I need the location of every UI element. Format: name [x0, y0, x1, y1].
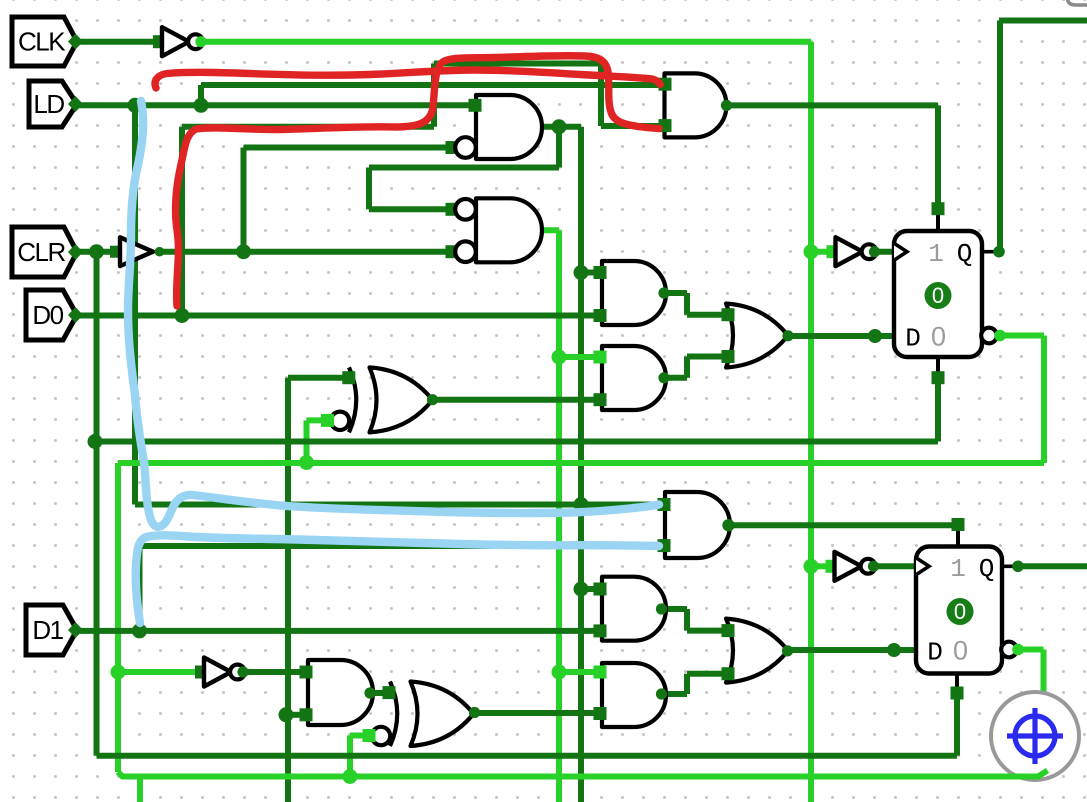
wire vertical bright exit at x140	[137, 777, 143, 802]
wire branch to gate B1 lower input	[286, 712, 302, 718]
flip-flop FF2 state value 0	[947, 598, 974, 625]
wire vertical bright Q1-bar drop at x1044	[1041, 336, 1047, 464]
wire vertical bright feedback rail at x118	[115, 463, 121, 772]
svg-text:0: 0	[931, 322, 946, 352]
FF2 Q output leg and node	[1002, 564, 1015, 568]
inverter I5 (FF2 clock)	[826, 560, 839, 573]
svg-text:Q: Q	[979, 554, 995, 584]
wire A3 output to FF2 preset	[728, 522, 958, 528]
AND gate A1	[602, 261, 666, 325]
wire into OR2 upper input	[687, 628, 724, 634]
wire buffer I2 output to gate G2 lower input	[158, 249, 447, 255]
junction A4 input branch on long vertical	[574, 582, 589, 597]
junction G1 net split	[552, 119, 567, 134]
wire vertical A1 jog	[684, 293, 690, 315]
blue freehand annotation stroke 2 (D1 route to A3 lower input)	[136, 535, 659, 623]
svg-text:LD: LD	[33, 89, 64, 119]
wire branch to gate A4 upper input	[581, 586, 596, 592]
wire vertical G1-output rail at x581	[578, 127, 584, 802]
junction on FF2 D input wire	[887, 643, 901, 657]
wire vertical bright XOR2 elbow	[347, 736, 353, 777]
wire vertical G2-input drop at x559	[556, 127, 562, 168]
wire inverter I4 output to FF1 clock	[877, 249, 894, 255]
wire LD upper branch to gate G3 top input	[201, 82, 662, 88]
wire into OR1 upper input	[687, 312, 724, 318]
wire B1 output to XOR2 upper input	[371, 690, 391, 696]
svg-text:D1: D1	[32, 615, 63, 645]
bright wire bottom row over compass	[1005, 771, 1048, 777]
FF2 inverted output node	[1012, 644, 1024, 656]
wire into G2 upper input	[369, 206, 447, 212]
wire CLR pin to buffer I2	[76, 249, 112, 255]
compass / target overlay icon bottom right	[991, 692, 1079, 780]
wire vertical bright Q2-bar drop at x1043	[1041, 650, 1047, 693]
svg-text:1: 1	[950, 554, 966, 584]
input pin D1	[26, 605, 77, 655]
wire LD row to gate G1 top input	[76, 102, 473, 108]
wire D1 branch row to gate A3 bottom input	[140, 543, 661, 549]
wire bright to XOR1 inverted input	[307, 417, 324, 423]
wire XOR1 output to gate A2 lower input	[432, 397, 596, 403]
FF1 inverted output node	[994, 330, 1006, 342]
wire vertical G2-input riser at x369	[366, 168, 372, 210]
flip-flop FF1 inverted output bubble	[981, 328, 997, 344]
junction CLR at vertical branch	[89, 244, 104, 259]
wire G1 output feedback row y167	[369, 165, 559, 171]
wire XOR2 output to gate A5 lower input	[474, 710, 596, 716]
wire vertical bright CLK-bar rail at x811	[808, 42, 814, 802]
AND gate A2	[602, 346, 666, 410]
blue freehand annotation stroke 1 (LD route to A3 upper input)	[128, 101, 659, 527]
wire vertical routing at x434	[431, 64, 437, 127]
input pin LD	[29, 81, 77, 127]
wire FF1 Q output row to right edge	[999, 18, 1087, 24]
XOR gate XOR1 (inverted lower input)	[370, 367, 433, 432]
AND gate A3 (load mux)	[665, 492, 730, 558]
wire G3 output row	[726, 102, 938, 108]
FF1 Q output leg and node	[982, 250, 996, 254]
svg-text:D0: D0	[32, 300, 63, 330]
flip-flop FF1 clock notch	[894, 243, 907, 260]
wire CLK pin to inverter I1	[76, 39, 157, 45]
wire bottom dark row to FF2 reset	[97, 753, 958, 759]
wire vertical bright G2 output rail at x559	[556, 230, 562, 802]
wire vertical XOR1 input rail at x288	[285, 378, 291, 802]
wire A4 output stub	[661, 606, 687, 612]
svg-text:D: D	[927, 638, 943, 668]
junction LD at vertical branch	[128, 98, 143, 113]
wire routing into G3 bottom input	[601, 123, 662, 129]
junction bright CLK-bar at FF2 clock branch	[804, 559, 819, 574]
wire FF1 reset row to CLR rail	[95, 439, 938, 445]
wire vertical FF2 reset drop at x957	[954, 693, 960, 756]
flip-flop FF2 clock notch	[916, 558, 929, 575]
wire vertical CLR riser at x243	[241, 148, 247, 252]
AND gate G3 top right	[665, 73, 727, 137]
wire vertical A4 jog	[684, 609, 690, 631]
wire D1 row to gate A4 lower input	[76, 628, 596, 634]
wire bright to inverter I4 input	[811, 249, 828, 255]
wire OR2 output to FF2 D input	[786, 647, 916, 653]
wire CLR branch to gate G1 lower input	[244, 145, 448, 151]
wire bright FF2 inverted output stub	[1021, 647, 1044, 653]
FF2 reset port square and stub	[955, 674, 959, 690]
wire bright G2 output stub	[536, 227, 559, 233]
buffer I2 on CLR	[110, 246, 122, 258]
wire bright bottom feedback row	[118, 772, 1035, 777]
svg-text:0: 0	[954, 599, 966, 624]
junction D1 at riser	[132, 623, 147, 638]
wire bright to gate A5 upper input	[559, 669, 596, 675]
AND gate G1 (inverted lower input)	[476, 95, 542, 159]
wire vertical LD feed down left at x135	[132, 105, 138, 504]
D flip-flop FF1 body	[894, 231, 982, 357]
wire D0 row to gate A1 lower input	[76, 313, 596, 319]
XOR gate XOR2 (inverted lower input)	[411, 682, 474, 747]
FF1 reset port square and stub	[936, 357, 940, 374]
inverter I3 (bottom left)	[195, 666, 208, 679]
junction CLR row at FF1 reset drop	[88, 434, 103, 449]
AND gate A5	[602, 663, 666, 727]
wire A5 output stub	[661, 691, 687, 697]
junction LD at up branch	[194, 98, 209, 113]
junction CLR at G1 branch	[236, 244, 251, 259]
inverter I1 on CLK	[153, 35, 166, 48]
wire bright to inverter I3 input	[118, 669, 199, 675]
D flip-flop FF2 body	[916, 547, 1002, 674]
wire LD lower branch to gate A3 top input	[135, 502, 660, 508]
wire bright feedback row y463	[118, 460, 1044, 466]
wire A1 output stub	[664, 290, 687, 296]
flip-flop FF2 inverted output bubble	[1001, 642, 1017, 658]
wire routing row y126 to riser x434	[182, 124, 434, 130]
OR gate OR1	[726, 304, 788, 368]
AND gate A4	[602, 577, 666, 641]
wire into OR2 lower input	[687, 671, 724, 677]
FF2 preset port square and stub	[956, 529, 960, 547]
junction bright CLK-bar at FF1 clock branch	[804, 244, 819, 259]
junction bright A5 input branch	[552, 665, 567, 680]
wire to XOR1 upper input	[288, 375, 344, 381]
junction G1 output node	[532, 121, 544, 133]
wire routing row y63	[434, 61, 601, 67]
wire FF2 Q output to right edge	[1019, 563, 1087, 569]
wire vertical bright XOR1 elbow	[304, 420, 310, 462]
svg-text:1: 1	[928, 239, 944, 269]
junction bright XOR1 elbow on feedback row	[299, 455, 314, 470]
wire inverter I5 output to FF2 clock	[876, 563, 916, 569]
flip-flop FF1 state value 0	[925, 282, 952, 309]
junction bright XOR2 elbow on bottom row	[343, 769, 358, 784]
svg-text:D: D	[905, 324, 921, 354]
svg-text:0: 0	[953, 636, 968, 666]
wire vertical FF1 reset drop	[935, 374, 941, 442]
wire bright to XOR2 inverted input	[350, 733, 365, 739]
wire vertical D0 riser at x182	[179, 127, 185, 316]
junction on FF1 D input wire	[868, 329, 882, 343]
junction A3 input branch on LD route	[574, 497, 589, 512]
wire bright to gate A2 upper input	[559, 354, 596, 360]
wire vertical D1 riser at x139	[137, 546, 143, 631]
wire G1 output stub	[540, 124, 581, 130]
partial gray component at top right edge	[1068, 0, 1087, 5]
wire vertical routing at x601	[598, 64, 604, 127]
wire inverter I3 output to gate B1 upper input	[246, 669, 302, 675]
red freehand annotation stroke 2 (upper line)	[155, 70, 660, 88]
svg-text:Q: Q	[957, 239, 973, 269]
wire into OR1 lower input	[687, 354, 724, 360]
OR gate OR2	[726, 619, 788, 683]
wire vertical G3 output drop to FF1 preset	[935, 105, 941, 209]
junction B1 lower input branch	[279, 707, 294, 722]
wire vertical A5 jog	[684, 674, 690, 694]
inverter I4 (FF1 clock)	[827, 245, 840, 258]
wire bright CLK-bar top row	[203, 39, 811, 45]
wire vertical A2 jog	[684, 357, 690, 378]
svg-text:CLR: CLR	[17, 237, 65, 267]
AND gate B1 (bottom)	[308, 660, 373, 725]
junction bright feedback at I3 branch	[111, 665, 126, 680]
wire vertical LD stub up at x201	[198, 85, 204, 105]
wire branch to gate A1 upper input	[581, 270, 596, 276]
wire bright FF1 inverted output stub	[1001, 333, 1044, 339]
red freehand annotation stroke 1 (LD gating loop)	[176, 56, 659, 306]
wire OR1 output to FF1 D input	[787, 333, 894, 339]
input pin D0	[26, 290, 77, 340]
wire vertical FF1 Q rise at x1000	[997, 21, 1003, 252]
wire A2 output stub	[664, 375, 687, 381]
junction D0 at riser	[175, 308, 190, 323]
input pin CLR	[12, 227, 77, 277]
junction A1 input branch on long vertical	[574, 265, 589, 280]
FF1 preset port square and stub	[936, 213, 940, 231]
AND gate G2 (both inputs inverted)	[476, 198, 542, 262]
wire bright to inverter I5 input	[811, 563, 827, 569]
wire vertical CLR rail down at x96	[94, 252, 100, 756]
svg-text:CLK: CLK	[18, 27, 66, 57]
svg-text:0: 0	[932, 283, 944, 308]
junction bright A2 input branch	[552, 350, 567, 365]
input pin CLK	[12, 17, 77, 66]
